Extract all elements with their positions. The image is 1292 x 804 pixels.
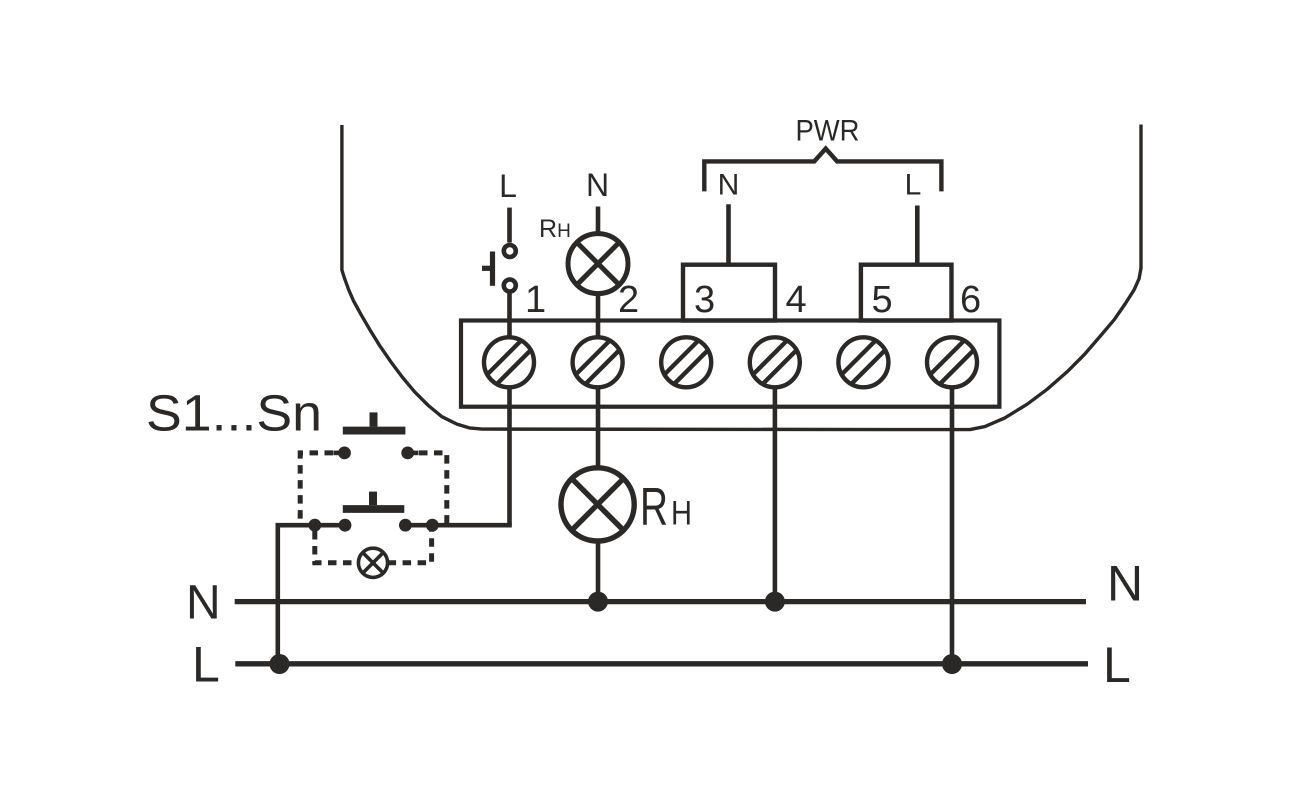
svg-text:6: 6 bbox=[960, 279, 981, 321]
indicator lamp (in push button) bbox=[358, 548, 387, 577]
jumper box terminals 3-4 bbox=[683, 265, 775, 321]
svg-text:5: 5 bbox=[872, 279, 893, 321]
svg-text:N: N bbox=[586, 167, 609, 203]
svg-text:S1...Sn: S1...Sn bbox=[146, 384, 322, 441]
screw terminal 5 bbox=[838, 337, 888, 387]
screw terminal 4 bbox=[750, 337, 800, 387]
jumper box terminals 5-6 bbox=[861, 265, 952, 321]
svg-text:PWR: PWR bbox=[796, 115, 860, 148]
wire L to push button bbox=[507, 208, 512, 243]
push button contact (terminal 1) bbox=[504, 245, 516, 292]
indicator lamp dashed branch bbox=[315, 531, 432, 563]
wire L(PWR) to jumper 5-6 bbox=[915, 206, 920, 265]
switch S1 dashed wiring left bbox=[300, 453, 333, 525]
wire push button to terminal 1 and down to switch row bbox=[507, 292, 512, 525]
svg-text:1: 1 bbox=[525, 279, 546, 321]
switch S1 contact dots bbox=[338, 447, 414, 460]
wire N / lamp / terminal 2 / lamp RH / N rail column bbox=[596, 207, 601, 602]
lamp RH (load) bbox=[561, 468, 634, 541]
svg-text:L: L bbox=[499, 168, 517, 204]
wire switch row right segment bbox=[405, 523, 511, 528]
junction dot switch branch / L rail bbox=[270, 654, 290, 674]
lamp RH (terminal 2) bbox=[568, 234, 628, 294]
switch S1 dashed wiring right bbox=[419, 453, 447, 525]
junction dot terminal 4 / N rail bbox=[765, 592, 785, 612]
svg-text:H: H bbox=[671, 495, 692, 533]
terminal block bbox=[461, 321, 999, 407]
wire switch row left segment bbox=[278, 525, 346, 664]
push button actuator (terminal 1) bbox=[482, 252, 493, 286]
wire N(PWR) to jumper 3-4 bbox=[726, 204, 731, 264]
screw terminal 1 bbox=[484, 337, 534, 387]
svg-text:L: L bbox=[1103, 637, 1131, 693]
svg-text:N: N bbox=[718, 169, 740, 202]
svg-text:3: 3 bbox=[694, 279, 715, 321]
switch S1 actuator bbox=[343, 412, 406, 430]
screw terminal 6 bbox=[927, 337, 977, 387]
junction dot terminal 6 / L rail bbox=[942, 654, 962, 674]
junction dot lamp RH / N rail bbox=[588, 592, 608, 612]
svg-text:L: L bbox=[905, 169, 922, 202]
svg-text:R: R bbox=[640, 478, 668, 537]
wire terminal 6 to L rail bbox=[950, 388, 955, 664]
svg-text:N: N bbox=[1107, 555, 1143, 611]
switch Sn actuator bbox=[343, 492, 405, 509]
svg-text:L: L bbox=[192, 637, 220, 693]
svg-text:N: N bbox=[186, 577, 221, 630]
switch S1 contact stubs bbox=[333, 451, 418, 456]
screw terminal 3 bbox=[661, 337, 711, 387]
device outline bbox=[342, 125, 1141, 430]
switch Sn contact dots and junction dots bbox=[308, 519, 438, 532]
svg-text:2: 2 bbox=[618, 279, 639, 321]
N rail bbox=[235, 599, 1086, 604]
wire terminal 4 to N rail bbox=[773, 388, 778, 602]
PWR bracket bbox=[704, 149, 941, 192]
svg-text:4: 4 bbox=[786, 279, 807, 321]
L rail bbox=[235, 661, 1088, 666]
screw terminal 2 bbox=[573, 337, 623, 387]
